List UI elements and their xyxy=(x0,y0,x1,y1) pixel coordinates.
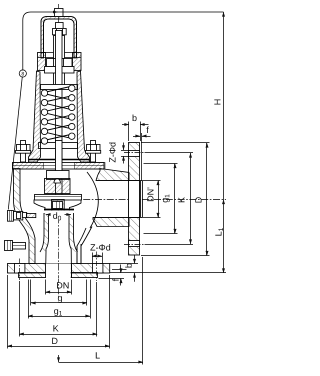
spring coil diagonals xyxy=(46,87,71,141)
arrows xyxy=(7,11,225,364)
disc insert nut xyxy=(53,202,63,209)
label d0 xyxy=(51,212,64,220)
label L xyxy=(96,352,100,358)
dimension K outlet line xyxy=(190,153,192,244)
label K inlet xyxy=(53,325,58,331)
adjusting screw lock nut xyxy=(53,29,67,36)
disc right wing xyxy=(70,200,82,212)
cap skirt left block xyxy=(38,53,46,71)
spring bottom plate xyxy=(39,143,78,149)
label DN xyxy=(57,282,69,288)
leader to lever pin xyxy=(8,77,22,210)
seat nozzle walls xyxy=(46,215,72,278)
label f inlet xyxy=(112,279,119,281)
label K outlet xyxy=(178,197,184,202)
ext line flange top right xyxy=(141,142,210,144)
dimension DN' line xyxy=(158,181,160,218)
spring wire sections left xyxy=(41,90,47,144)
inlet neck right wall xyxy=(77,244,81,264)
spindle ball tip xyxy=(54,179,60,183)
dimension K line xyxy=(19,334,97,336)
dimension b inlet xyxy=(110,263,138,265)
dimension D outlet line xyxy=(206,143,208,256)
outlet flange section xyxy=(129,143,140,256)
dimension f ext line xyxy=(141,133,143,181)
ext line outlet g1 bottom xyxy=(144,233,178,235)
outlet bolt hole centerline bottom xyxy=(124,244,145,246)
inlet bolt hole centerline left xyxy=(19,259,21,281)
cap bottom joint lines xyxy=(38,57,81,59)
bonnet gasket joint thick line xyxy=(29,159,90,161)
label b outlet xyxy=(133,115,137,122)
label g1 outlet xyxy=(163,195,170,203)
outlet bore lines xyxy=(96,180,140,182)
disc plate xyxy=(35,195,82,201)
spring wire sections right xyxy=(69,85,75,139)
label Z-Phi-d outlet xyxy=(109,143,116,163)
disc holder hatched xyxy=(45,179,71,194)
disc left wing xyxy=(34,200,45,212)
label Z-Phi-d inlet xyxy=(90,244,110,251)
bonnet nut left xyxy=(16,144,31,153)
balloon label 8 xyxy=(22,72,24,76)
nozzle wall section right xyxy=(69,213,78,252)
label g xyxy=(58,296,62,303)
top leader line xyxy=(23,12,224,71)
ext line inlet flange bottom to H xyxy=(110,272,226,274)
body outlet neck bottom wall xyxy=(93,218,129,227)
label DN' xyxy=(147,188,153,202)
cap skirt right block xyxy=(73,53,82,71)
spindle xyxy=(56,31,63,196)
label D inlet xyxy=(52,338,57,344)
balloon 8 xyxy=(19,70,26,77)
dimension D line xyxy=(7,346,109,348)
inlet raised face step xyxy=(19,273,98,278)
centerline through bore xyxy=(58,264,60,279)
bonnet right wall xyxy=(77,71,90,162)
spindle through flange xyxy=(56,141,63,180)
outlet bolt hole centerline top xyxy=(124,152,145,154)
cap inner outline xyxy=(44,19,75,58)
dimension b outlet line xyxy=(122,124,129,126)
ext line outlet g1 top xyxy=(144,163,178,165)
ext line outlet bore top xyxy=(143,180,161,182)
inlet bore through flange xyxy=(46,264,71,279)
disc insert xyxy=(52,200,65,212)
dimension b outlet ext lines xyxy=(128,122,130,142)
dimension f inlet xyxy=(120,265,122,274)
left drain plug xyxy=(5,240,27,251)
body lower right wall xyxy=(77,227,92,264)
centerline vertical axis xyxy=(58,4,60,298)
dimension f line xyxy=(133,136,140,138)
seat joint thick line xyxy=(45,211,73,215)
cap top knob xyxy=(55,9,64,17)
body interior curve xyxy=(87,172,98,228)
ext line outlet bore bottom xyxy=(143,217,161,219)
label f xyxy=(146,127,148,134)
dimension H line xyxy=(223,12,225,273)
ext line L right xyxy=(142,257,144,365)
ext lines g inlet xyxy=(30,280,32,306)
dimension g1 line xyxy=(28,316,90,318)
spring top plate xyxy=(41,85,78,90)
ext lines g1 inlet xyxy=(28,280,30,319)
cap wall section xyxy=(41,17,77,59)
label L1 xyxy=(215,228,223,236)
dimension d0 line xyxy=(46,214,51,216)
dimension g line xyxy=(31,302,87,304)
outlet raised face xyxy=(141,181,143,218)
dimension Phi-d inlet line xyxy=(92,256,102,258)
bonnet stud left xyxy=(21,141,26,163)
ext lines K inlet xyxy=(19,281,21,337)
label D outlet xyxy=(195,197,201,202)
centerline outlet axis xyxy=(36,199,226,201)
bonnet stud right xyxy=(91,141,96,163)
inlet bore walls xyxy=(45,263,47,278)
nozzle outer walls xyxy=(40,213,78,252)
bonnet nut right xyxy=(86,144,101,153)
dimension DN line xyxy=(46,292,72,294)
nozzle wall section left xyxy=(40,213,49,252)
bonnet flange xyxy=(13,163,105,170)
adjusting screw top stub xyxy=(56,23,64,29)
label H xyxy=(214,100,220,105)
dimension Z-Phi-d outlet line xyxy=(123,143,125,151)
spindle guide collar xyxy=(47,171,70,180)
dimension g1 outlet line xyxy=(174,164,176,234)
inlet flange section xyxy=(8,264,110,274)
body left wall xyxy=(14,169,36,264)
ext line outlet K top xyxy=(145,152,194,154)
adjusting screw nut at bonnet xyxy=(45,58,75,73)
label g1 inlet xyxy=(54,309,62,316)
bonnet left wall xyxy=(29,71,41,162)
left lever pin plug xyxy=(8,210,36,221)
ext line outlet D bottom xyxy=(141,255,210,257)
adjusting screw tube xyxy=(54,36,65,89)
ext lines D inlet xyxy=(7,275,9,349)
ext lines DN inlet xyxy=(45,280,47,295)
label b inlet xyxy=(125,263,132,267)
body outlet neck top wall xyxy=(96,169,129,181)
ext line outlet K bottom xyxy=(145,244,194,246)
dimension L line xyxy=(59,362,144,364)
cap outer outline xyxy=(41,17,77,59)
inlet bolt hole centerline right xyxy=(96,252,98,282)
